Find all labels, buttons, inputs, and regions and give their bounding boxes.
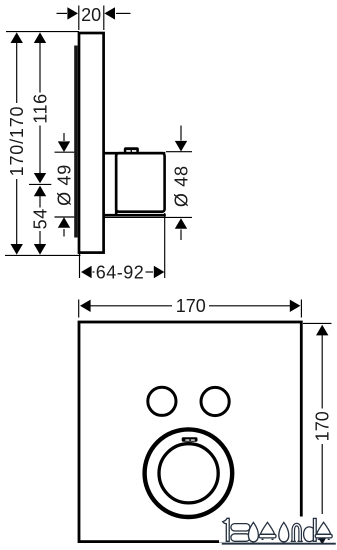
- front top-left extension: [78, 300, 80, 318]
- svg-text:Ø 49: Ø 49: [55, 164, 75, 206]
- 64-92 left extension: [79, 253, 81, 278]
- FRONT VIEW GROUP: [79, 322, 301, 542]
- DIMENSION 116: [31, 32, 51, 183]
- 64-92 right extension: [164, 213, 166, 278]
- watermark letter d bowl: [304, 527, 314, 542]
- watermark letter d stem: [313, 518, 316, 541]
- knob button (side): [124, 147, 139, 153]
- watermark letter B bowl bottom: [231, 534, 250, 542]
- watermark letter s triangle: [260, 522, 274, 534]
- svg-text:170/170: 170/170: [7, 106, 27, 177]
- DIMENSION dia 48: [172, 126, 192, 241]
- dia49 top extension: [55, 151, 75, 153]
- top extension line: [6, 31, 79, 33]
- front top-right extension: [300, 300, 302, 318]
- select button right: [201, 387, 229, 415]
- knob button (front): [182, 437, 198, 442]
- svg-text:54: 54: [31, 208, 51, 229]
- wall flange strip: [74, 46, 77, 238]
- DIMENSION 64-92: [81, 262, 164, 282]
- knob body (side): [116, 153, 164, 212]
- escutcheon plate (front): [79, 322, 301, 542]
- watermark letter B stem: [223, 518, 230, 541]
- svg-text:64-92: 64-92: [96, 262, 145, 282]
- watermark letter o2 droplet: [279, 522, 289, 541]
- watermark underline: [222, 543, 336, 545]
- svg-text:170: 170: [313, 411, 333, 441]
- 20 dim left extension: [78, 6, 80, 31]
- DIMENSION 170 top (front): [80, 296, 300, 316]
- SIDE VIEW GROUP: [74, 33, 166, 253]
- thermostat knob outer circle: [145, 429, 233, 517]
- knob top edge line: [104, 152, 166, 155]
- watermark letter B bowl top: [231, 524, 250, 531]
- DIMENSION 170 right (front): [313, 325, 333, 514]
- svg-text:20: 20: [81, 5, 101, 25]
- 20 dim right extension: [103, 6, 105, 31]
- DIMENSION dia 49: [55, 133, 75, 237]
- select button left: [148, 387, 176, 415]
- dia48 bottom extension: [105, 216, 193, 218]
- DIMENSION 54: [31, 186, 51, 255]
- WATERMARK: [219, 517, 337, 545]
- svg-text:Ø 48: Ø 48: [172, 165, 192, 207]
- DIMENSION 170/170: [7, 32, 27, 254]
- watermark white background: [219, 517, 337, 543]
- knob rear edge full: [115, 153, 118, 215]
- dia48 top extension: [166, 151, 192, 153]
- svg-text:116: 116: [31, 93, 51, 124]
- EXTENSION LINES (front view): [79, 300, 332, 324]
- EXTENSION LINES (side view): [5, 6, 192, 279]
- watermark letter o1 droplet: [248, 522, 258, 541]
- thermostat knob inner circle: [159, 444, 218, 503]
- DIMENSION 20: [57, 5, 131, 25]
- dia49 bottom extension: [55, 216, 75, 218]
- escutcheon plate (side): [79, 33, 104, 253]
- watermark letter a triangle: [317, 522, 331, 534]
- dimension arrow down (under letter a): [316, 534, 328, 545]
- svg-text:170: 170: [176, 296, 206, 316]
- bottom extension line: [5, 254, 81, 256]
- watermark letter n arch: [291, 523, 302, 541]
- front right extension: [303, 322, 332, 324]
- sleeve bottom edge: [104, 214, 166, 217]
- mid tick at knob axis: [29, 183, 51, 185]
